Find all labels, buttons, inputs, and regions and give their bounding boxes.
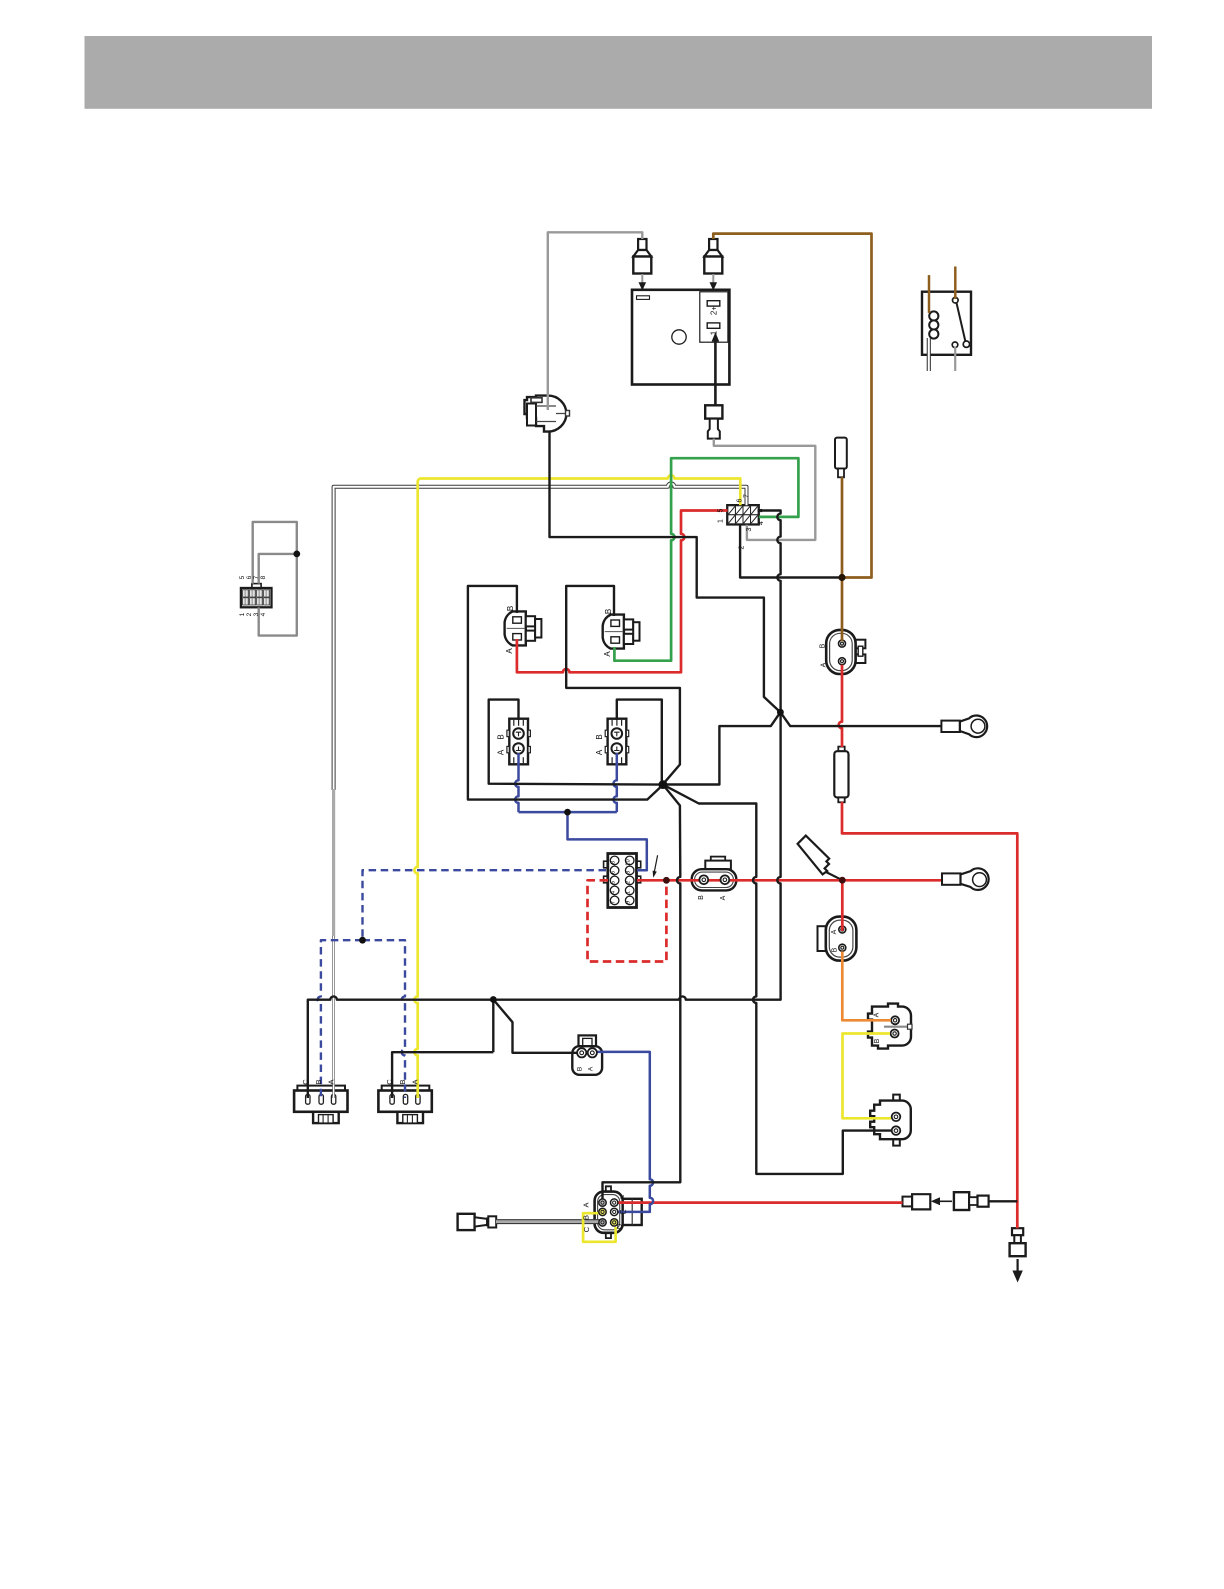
svg-text:3: 3	[746, 527, 753, 531]
svg-text:A: A	[587, 1066, 594, 1071]
svg-text:8: 8	[611, 861, 617, 864]
svg-text:B: B	[595, 734, 604, 739]
svg-text:D: D	[615, 1223, 624, 1229]
svg-text:A: A	[831, 929, 838, 934]
svg-text:3: 3	[253, 612, 260, 616]
svg-text:5: 5	[239, 575, 246, 579]
svg-text:1: 1	[710, 330, 719, 335]
svg-text:B: B	[577, 1067, 584, 1071]
svg-text:A: A	[603, 651, 612, 657]
svg-text:2: 2	[246, 612, 253, 616]
svg-text:2: 2	[739, 545, 746, 549]
svg-text:5: 5	[717, 508, 724, 512]
svg-text:B: B	[398, 1079, 407, 1084]
svg-text:A: A	[411, 1079, 420, 1084]
svg-text:B: B	[497, 734, 506, 739]
svg-text:5: 5	[611, 881, 617, 884]
svg-text:B: B	[582, 1215, 591, 1220]
svg-text:A: A	[821, 662, 828, 667]
svg-text:A: A	[497, 749, 506, 755]
svg-text:1: 1	[239, 612, 246, 616]
svg-text:7: 7	[611, 901, 617, 904]
svg-text:3: 3	[626, 871, 632, 874]
svg-text:C: C	[301, 1079, 310, 1085]
svg-text:4: 4	[758, 521, 765, 525]
svg-text:B: B	[698, 895, 705, 900]
svg-text:4: 4	[260, 612, 267, 616]
svg-text:F: F	[619, 1194, 628, 1199]
svg-text:A: A	[720, 895, 727, 900]
svg-text:A: A	[505, 648, 514, 654]
svg-text:6: 6	[737, 498, 744, 502]
svg-text:6: 6	[246, 575, 253, 579]
svg-text:6: 6	[611, 871, 617, 874]
svg-text:B: B	[314, 1079, 323, 1084]
svg-text:B: B	[874, 1038, 881, 1043]
svg-text:B: B	[832, 947, 839, 952]
svg-text:8: 8	[758, 508, 765, 512]
svg-text:A: A	[327, 1079, 336, 1084]
svg-text:1: 1	[626, 891, 632, 894]
svg-text:A: A	[874, 1012, 881, 1017]
svg-text:B: B	[604, 609, 613, 614]
svg-text:8: 8	[260, 575, 267, 579]
svg-text:E: E	[619, 1209, 628, 1214]
svg-text:7: 7	[253, 575, 260, 579]
svg-text:A: A	[595, 749, 604, 755]
svg-text:1: 1	[717, 519, 724, 523]
svg-text:B: B	[820, 643, 827, 648]
svg-text:7: 7	[744, 494, 751, 498]
svg-text:2: 2	[626, 881, 632, 884]
svg-text:2+: 2+	[710, 306, 719, 315]
svg-text:A: A	[582, 1202, 591, 1207]
svg-text:C: C	[582, 1226, 591, 1232]
svg-text:B: B	[506, 606, 515, 611]
svg-text:C: C	[385, 1079, 394, 1085]
svg-text:10: 10	[626, 859, 632, 865]
svg-text:9: 9	[626, 901, 632, 904]
